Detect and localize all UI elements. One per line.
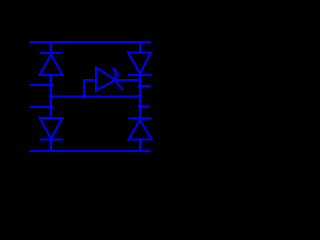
node rail-right junction bbox=[138, 94, 142, 98]
diode D3 cathode bar bbox=[128, 74, 151, 76]
node rail-left junction bbox=[49, 94, 53, 98]
diode D2 bottom-left cathode bar bbox=[40, 139, 64, 141]
thyristor U1 lower gate diagonal bbox=[116, 82, 124, 91]
wire bottom rail bbox=[30, 150, 151, 152]
wire right branch vertical bbox=[139, 42, 141, 151]
thyristor U1 cathode bar bbox=[115, 69, 117, 83]
node stub A junction bbox=[49, 83, 53, 87]
diode D1 top-left triangle bbox=[40, 55, 63, 76]
wire right short stub bbox=[140, 85, 151, 87]
node right stub junction bbox=[138, 84, 142, 88]
wire thyristor cathode bbox=[116, 79, 140, 81]
wire left branch vertical bbox=[50, 42, 52, 151]
node gate stub junction bbox=[138, 104, 142, 108]
thyristor U1 upper gate diagonal bbox=[113, 69, 120, 76]
wire right gate stub bbox=[140, 106, 150, 108]
thyristor U1 triangle bbox=[96, 68, 116, 91]
diode D1 top-left cathode bar bbox=[40, 52, 63, 54]
node branch riser junction bbox=[82, 94, 86, 98]
diode D3 top-right triangle bbox=[128, 53, 151, 74]
node cathode wire junction bbox=[138, 78, 142, 82]
wire middle rail bbox=[51, 96, 140, 98]
wire left terminal stub A bbox=[30, 84, 52, 86]
wire top rail bbox=[30, 41, 152, 43]
diode D2 bottom-left triangle bbox=[40, 118, 63, 139]
wire thyristor branch riser bbox=[84, 80, 95, 97]
diode D4 bottom-right triangle bbox=[129, 120, 152, 140]
diode D4 bottom-right cathode bar bbox=[129, 117, 152, 119]
node stub B junction bbox=[49, 105, 53, 109]
wire left terminal stub B bbox=[30, 106, 52, 108]
